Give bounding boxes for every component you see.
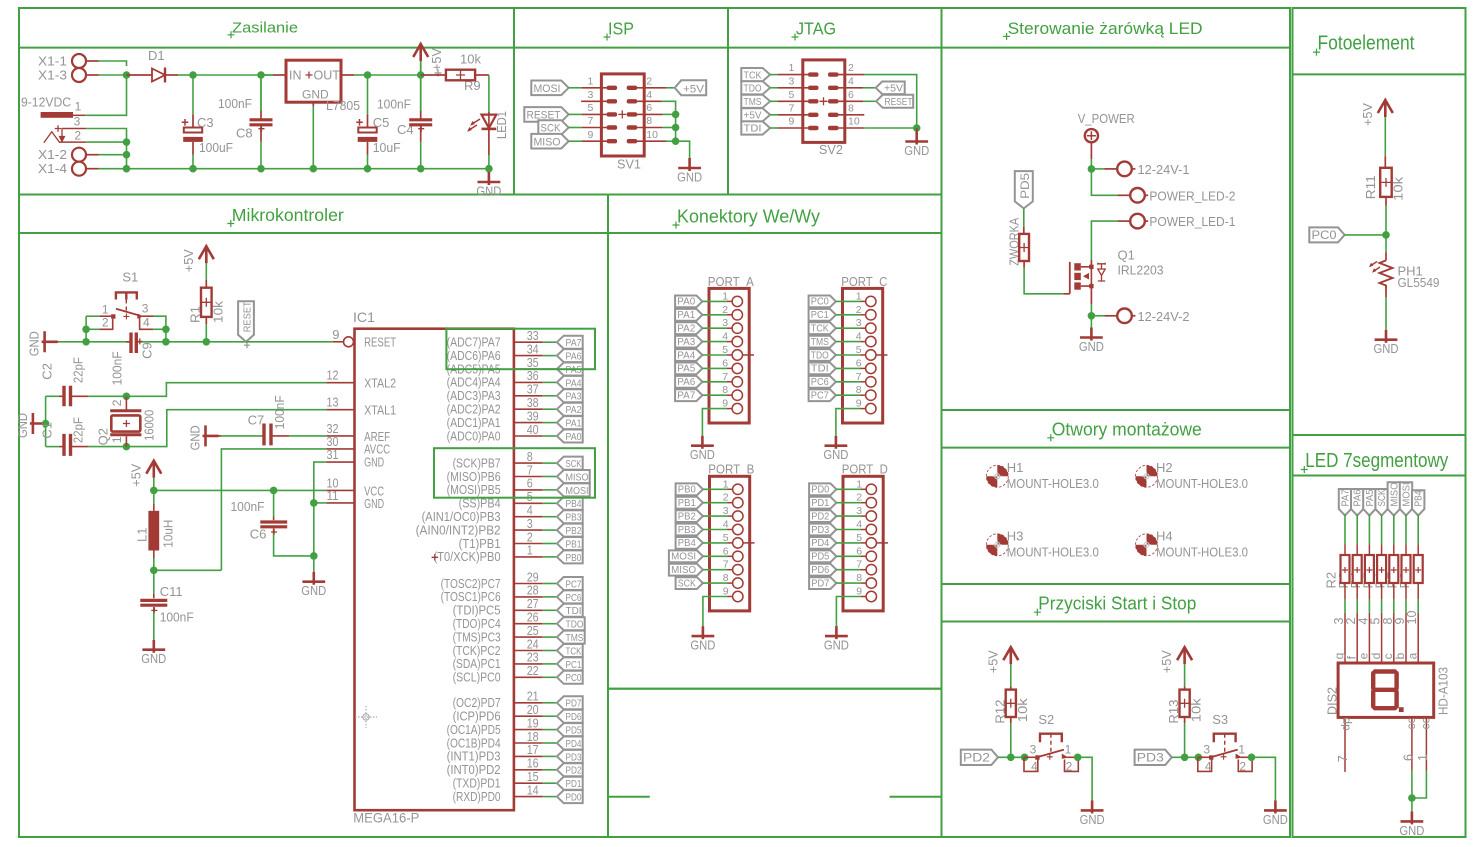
junction switch S3 left — [1195, 754, 1203, 762]
svg-text:TMS: TMS — [566, 632, 584, 644]
svg-text:12-24V-2: 12-24V-2 — [1138, 309, 1190, 324]
svg-text:TMS: TMS — [744, 97, 762, 108]
wire PA7 to PORT_A — [702, 394, 727, 396]
net flag PD4 mcu — [557, 737, 583, 750]
pad POWER_LED-1 — [1130, 214, 1145, 229]
wire PA3 to PORT_A — [702, 341, 727, 343]
ground GND PORT_D — [825, 626, 848, 639]
net flag PC1 mcu — [557, 657, 583, 670]
wire TDO to PORT_C — [836, 354, 861, 356]
wire PA2 to PORT_A — [702, 327, 727, 329]
svg-text:PA7: PA7 — [677, 390, 695, 402]
svg-text:5: 5 — [588, 102, 594, 114]
mounting hole H1 — [986, 465, 1008, 487]
svg-text:6: 6 — [646, 102, 652, 114]
wire PD3 to PORT_D — [836, 529, 861, 531]
section frame: LED 7segmentowy — [1293, 435, 1466, 837]
PORT_D pin9 wire to GND — [861, 596, 866, 598]
net flag SCK — [538, 120, 568, 135]
resistor R13 10k — [1184, 686, 1186, 689]
junction jack pin2 — [123, 138, 131, 146]
wire PA5 to PORT_A — [702, 367, 727, 369]
svg-text:9-12VDC: 9-12VDC — [21, 95, 71, 110]
resistor R11 10k — [1384, 156, 1386, 168]
PORT_A pin 6 pad — [732, 363, 742, 373]
svg-text:PA0: PA0 — [566, 431, 582, 443]
svg-text:PD2: PD2 — [566, 765, 582, 777]
wire X1-1 to corner — [99, 61, 127, 66]
svg-text:PD3: PD3 — [1137, 751, 1164, 765]
wire PD5 to ZWORKA — [1023, 208, 1025, 227]
PORT_B origin line pin5 — [743, 542, 755, 544]
green selection rect PA7-PA5 — [446, 329, 595, 370]
IC1 pin 13 stub — [326, 409, 354, 411]
svg-text:9: 9 — [588, 129, 594, 141]
jack pin2 wire — [60, 141, 87, 143]
SV2 pin contacts — [808, 99, 819, 103]
svg-text:PD7: PD7 — [566, 698, 582, 710]
junction switch S3 right — [1248, 754, 1256, 762]
svg-text:S1: S1 — [122, 270, 138, 285]
PORT_C pin 1 pad — [866, 296, 876, 306]
svg-text:PA7: PA7 — [566, 337, 582, 349]
svg-text:Przyciski Start i Stop: Przyciski Start i Stop — [1038, 594, 1196, 614]
svg-text:dp: dp — [1339, 717, 1353, 731]
PORT_B pin 6 pad — [733, 551, 743, 561]
wire PB3 to PORT_B — [703, 529, 728, 531]
svg-text:RESET: RESET — [364, 334, 396, 349]
svg-text:PD5: PD5 — [566, 725, 582, 737]
wire GND to C7 — [221, 435, 262, 437]
svg-text:C7: C7 — [248, 413, 265, 428]
svg-text:GND: GND — [824, 638, 849, 653]
svg-text:+5V: +5V — [128, 463, 143, 486]
junction C8 bottom — [257, 165, 265, 173]
svg-text:13: 13 — [327, 395, 339, 410]
top bus wire — [193, 74, 273, 76]
PORT_C origin line pin5 — [876, 354, 888, 356]
net flag TCK JTAG — [741, 68, 770, 81]
ground GND S3 — [1264, 800, 1287, 813]
svg-text:1: 1 — [789, 62, 795, 74]
S1 pin3 wire — [142, 315, 153, 317]
resistor R4 — [1368, 515, 1370, 545]
node junction X1 input — [123, 71, 131, 79]
svg-text:PA7: PA7 — [1341, 489, 1352, 506]
IC1 pin 31 stub GND — [326, 461, 354, 463]
wire PD1 to PORT_D — [836, 502, 861, 504]
svg-text:PA3: PA3 — [677, 336, 695, 348]
junction cc node — [1408, 794, 1416, 802]
svg-text:SCK: SCK — [1377, 489, 1388, 506]
ground GND ISP — [678, 158, 701, 171]
junction C4 bottom — [417, 165, 425, 173]
SV1 pin 4 wire — [637, 100, 662, 102]
svg-text:PA5: PA5 — [677, 363, 695, 375]
svg-text:Konektory We/Wy: Konektory We/Wy — [677, 206, 821, 227]
svg-text:S2: S2 — [1038, 712, 1054, 727]
ground GND Fotoelement — [1375, 330, 1398, 343]
svg-text:X1-3: X1-3 — [38, 68, 67, 83]
svg-text:PA1: PA1 — [677, 309, 695, 321]
svg-text:7: 7 — [1336, 755, 1350, 762]
junction crystal bottom — [123, 443, 131, 451]
wire MISO to PORT_B — [703, 569, 728, 571]
net flag MISO 7seg — [1388, 482, 1400, 515]
svg-text:D1: D1 — [148, 48, 165, 63]
SV1 pin 1 line — [582, 87, 608, 89]
net flag PD5 mcu — [557, 723, 583, 736]
svg-text:C8: C8 — [236, 126, 253, 141]
svg-text:11: 11 — [327, 488, 339, 503]
digit 8 segments — [1373, 672, 1396, 709]
svg-text:PA6: PA6 — [1353, 489, 1364, 506]
svg-text:PD5: PD5 — [1018, 173, 1032, 199]
svg-text:C2: C2 — [40, 363, 55, 380]
net flag PD7 mcu — [557, 696, 583, 709]
svg-text:TDO: TDO — [744, 84, 762, 95]
net flag PB4 PORT_B — [676, 537, 703, 549]
net flag RESET JTAG — [876, 95, 913, 108]
svg-text:PB0: PB0 — [566, 552, 582, 564]
svg-text:PC1: PC1 — [566, 659, 582, 671]
net flag +5V ISP — [675, 80, 707, 95]
svg-text:TCK: TCK — [811, 323, 829, 335]
SV1 pin 3 line unconnected — [581, 100, 607, 102]
resistor R7 — [1405, 515, 1407, 545]
svg-text:PB1: PB1 — [678, 497, 696, 509]
DIS2 cc pin 1 — [1425, 717, 1427, 770]
IC1 pin 32 stub AREF — [326, 435, 354, 437]
svg-text:PC6: PC6 — [566, 592, 582, 604]
svg-text:+5V: +5V — [1360, 103, 1375, 126]
svg-text:100nF: 100nF — [377, 97, 411, 112]
tick line left — [608, 796, 650, 798]
junction S1 left — [82, 338, 90, 346]
svg-text:TDI: TDI — [744, 124, 762, 135]
resistor R12 10k — [1010, 686, 1012, 689]
svg-text:PD6: PD6 — [566, 711, 582, 723]
svg-text:L7805: L7805 — [326, 98, 360, 113]
net flag PA5 PORT_A — [675, 363, 702, 375]
wire PD3 to switch — [1172, 756, 1199, 758]
wire down to GND C6 — [313, 503, 315, 572]
svg-text:PA5: PA5 — [1365, 489, 1376, 506]
svg-text:GND: GND — [1080, 812, 1105, 827]
svg-text:+5V: +5V — [1159, 650, 1174, 673]
PORT_A pin 5 pad — [732, 350, 742, 360]
svg-text:GND: GND — [1399, 823, 1424, 838]
svg-text:10: 10 — [1405, 611, 1419, 625]
svg-text:(SCL)PC0: (SCL)PC0 — [453, 670, 501, 685]
net flag PC0 — [1309, 227, 1344, 242]
decimal point — [1399, 707, 1404, 712]
svg-text:1: 1 — [527, 543, 533, 558]
PORT_C pin 5 pad — [866, 350, 876, 360]
svg-text:22pF: 22pF — [71, 357, 86, 383]
wire PA6 to PORT_A — [702, 381, 727, 383]
net flag RESET vertical — [238, 301, 254, 342]
ZWORKA wire to Q1 gate — [1023, 261, 1025, 268]
section frame: Przyciski Start i Stop — [942, 584, 1291, 837]
net flag PD5 — [1015, 171, 1033, 208]
DIS2 pin 9 stub — [1405, 613, 1407, 663]
net flag PC7 mcu — [557, 577, 583, 590]
pin stub X1-4 — [86, 168, 99, 170]
net flag PA1 mcu — [557, 416, 583, 429]
svg-text:2: 2 — [110, 399, 124, 406]
SV2 pin line +5V — [778, 114, 809, 116]
PORT_D origin line pin5 — [877, 542, 889, 544]
junction switch S2 left — [1021, 754, 1029, 762]
svg-text:XTAL1: XTAL1 — [364, 403, 396, 418]
tick line right — [890, 796, 942, 798]
svg-text:3: 3 — [789, 75, 795, 87]
svg-text:9: 9 — [789, 116, 795, 128]
net flag PA3 mcu — [557, 389, 583, 402]
capacitor C3 100uF — [192, 75, 194, 114]
net flag TDI mcu — [557, 604, 583, 617]
junction C8 top — [257, 71, 265, 79]
svg-text:1: 1 — [1065, 742, 1072, 756]
C2 wires — [46, 395, 59, 397]
svg-text:100nF: 100nF — [272, 395, 287, 429]
ground GND C7 — [203, 425, 219, 446]
PORT_D pin 3 pad — [866, 511, 876, 521]
ground GND C11 — [142, 640, 165, 653]
SV2 pin line TDI — [778, 127, 809, 129]
net flag MISO PORT_B — [669, 564, 703, 576]
svg-text:Otwory montażowe: Otwory montażowe — [1052, 419, 1202, 439]
svg-text:100nF: 100nF — [160, 609, 194, 624]
SV2 pin line TCK — [778, 74, 809, 76]
svg-text:DIS2: DIS2 — [1324, 687, 1339, 715]
junction GND caps — [42, 420, 50, 428]
net flag RESET — [524, 107, 568, 122]
svg-text:PA1: PA1 — [566, 418, 582, 430]
junction C6 bottom — [310, 552, 318, 560]
svg-text:MOUNT-HOLE3.0: MOUNT-HOLE3.0 — [1007, 544, 1099, 559]
svg-text:2: 2 — [646, 75, 652, 87]
wire pin11 GND — [314, 502, 326, 504]
net flag PD3 mcu — [557, 750, 583, 763]
svg-text:PD3: PD3 — [566, 751, 582, 763]
svg-text:PA6: PA6 — [677, 376, 695, 388]
svg-text:Q1: Q1 — [1118, 247, 1135, 262]
svg-text:PA3: PA3 — [566, 391, 582, 403]
svg-text:JTAG: JTAG — [796, 19, 836, 39]
svg-text:TDI: TDI — [566, 605, 582, 617]
wire to POWER_LED-2 — [1091, 169, 1117, 195]
net flag +5V JTAG — [741, 108, 770, 121]
svg-text:R11: R11 — [1363, 175, 1378, 199]
svg-text:GND: GND — [823, 447, 848, 462]
net flag PA2 PORT_A — [675, 322, 702, 334]
ground GND PORT_C — [825, 436, 848, 449]
svg-text:MOUNT-HOLE3.0: MOUNT-HOLE3.0 — [1007, 476, 1099, 491]
net flag TCK mcu — [557, 644, 583, 657]
net flag MISO mcu — [557, 470, 590, 483]
VCC net wire — [154, 489, 326, 491]
net flag PD1 PORT_D — [809, 497, 836, 509]
svg-text:PD1: PD1 — [566, 778, 582, 790]
wire X1-2 to junction — [99, 154, 127, 156]
net flag PD3 — [1135, 750, 1172, 765]
wire R9 to LED1 — [488, 75, 490, 112]
svg-text:PORT_B: PORT_B — [708, 462, 754, 477]
svg-text:X1-1: X1-1 — [38, 54, 67, 69]
svg-text:1: 1 — [1416, 754, 1430, 761]
svg-text:PB4: PB4 — [566, 498, 582, 510]
junction C6 top — [270, 487, 278, 495]
SV2 pin 10 wire — [838, 127, 865, 129]
svg-text:6: 6 — [848, 89, 854, 101]
wire PD4 to PORT_D — [836, 542, 861, 544]
pin header SV2 — [803, 60, 845, 142]
wire PD2 to PORT_D — [836, 515, 861, 517]
svg-text:PA4: PA4 — [566, 377, 582, 389]
svg-text:+5V: +5V — [985, 650, 1000, 673]
empty frame below Konektory — [608, 689, 942, 837]
net flag PB4 7seg — [1412, 490, 1424, 515]
svg-text:8: 8 — [848, 102, 854, 114]
DIS2 pin 10 stub — [1417, 613, 1419, 663]
wire PA0 to PORT_A — [702, 300, 727, 302]
junction JTAG gnd node — [913, 124, 921, 132]
junction C5 bottom — [364, 165, 372, 173]
svg-text:PD2: PD2 — [963, 751, 990, 765]
svg-text:100nF: 100nF — [218, 96, 252, 111]
jack spring contact — [44, 132, 60, 143]
svg-text:(RXD)PD0: (RXD)PD0 — [453, 789, 501, 804]
wire PC1 to PORT_C — [836, 314, 861, 316]
svg-text:PB3: PB3 — [678, 524, 696, 536]
DIS2 cc pin 6 — [1411, 717, 1413, 770]
svg-text:Zasilanie: Zasilanie — [232, 19, 298, 36]
svg-text:H2: H2 — [1156, 460, 1173, 475]
svg-text:9: 9 — [332, 327, 339, 342]
SV1 pin 5 line — [582, 113, 608, 115]
PORT_C pin 7 pad — [866, 377, 876, 387]
svg-text:PB0: PB0 — [678, 484, 696, 496]
svg-text:PB4: PB4 — [678, 537, 696, 549]
net flag PD0 PORT_D — [809, 483, 836, 495]
L7805 GND pin stub — [312, 102, 314, 106]
net flag TDI PORT_C — [809, 363, 836, 375]
ground GND reset net left — [42, 331, 58, 352]
ground GND PORT_A — [691, 436, 714, 449]
svg-text:GND: GND — [1263, 812, 1288, 827]
wire C9 to R1 node — [142, 341, 246, 343]
svg-text:PD3: PD3 — [811, 524, 829, 536]
svg-text:MOUNT-HOLE3.0: MOUNT-HOLE3.0 — [1156, 476, 1248, 491]
junction crystal top — [123, 393, 131, 401]
PORT_D pin 8 pad — [866, 578, 876, 588]
net flag PD2 mcu — [557, 763, 583, 776]
net flag PA1 PORT_A — [675, 309, 702, 321]
junction X1-2 — [123, 151, 131, 159]
IC1 pin 10 stub VCC — [326, 489, 354, 491]
net flag TMS PORT_C — [809, 336, 836, 348]
C1 wires — [46, 446, 59, 448]
junction ISP pin6 — [672, 111, 680, 119]
PORT_B pin 5 pad — [733, 538, 743, 548]
bottom GND bus wire — [99, 168, 489, 170]
svg-text:PA2: PA2 — [677, 323, 695, 335]
net flag PD4 PORT_D — [809, 537, 836, 549]
wire PD2 to switch — [998, 756, 1025, 758]
net flag PD5 PORT_D — [809, 550, 836, 562]
svg-text:C11: C11 — [160, 584, 183, 599]
net flag PB1 PORT_B — [676, 497, 703, 509]
PORT_B pin9 wire to GND — [728, 596, 733, 598]
S1 lever — [116, 309, 140, 316]
SV2 pin 8 line unconnected — [838, 114, 865, 116]
net flag PA0 PORT_A — [675, 296, 702, 308]
svg-text:GND: GND — [364, 454, 384, 469]
PORT_C pin 8 pad — [866, 390, 876, 400]
svg-text:PC0: PC0 — [1312, 228, 1337, 242]
wire PC6 to PORT_C — [836, 381, 861, 383]
svg-text:GND: GND — [141, 651, 166, 666]
pad 12-24V-1 — [1091, 168, 1104, 170]
svg-text:3: 3 — [74, 115, 81, 129]
svg-text:X1-2: X1-2 — [38, 147, 67, 162]
+5V supply Fotoelement — [1378, 100, 1393, 117]
svg-text:GL5549: GL5549 — [1398, 275, 1440, 290]
net flag PD2 PORT_D — [809, 510, 836, 522]
resistor R3 — [1356, 515, 1358, 545]
wire L7805 GND down — [312, 106, 314, 169]
DIS2 pin 4 stub — [1368, 613, 1370, 663]
svg-text:GND: GND — [904, 143, 929, 158]
svg-text:TDO: TDO — [566, 619, 584, 631]
net flag PB3 PORT_B — [676, 524, 703, 536]
svg-text:+5V: +5V — [683, 83, 705, 95]
red origin cross near PB0 — [432, 554, 438, 560]
svg-text:12-24V-1: 12-24V-1 — [1138, 162, 1190, 177]
photoresistor PH1 GL5549 — [1385, 235, 1387, 252]
svg-text:100nF: 100nF — [231, 499, 265, 514]
pin stub X1-3 — [86, 74, 99, 76]
IC1 origin crosshair — [355, 706, 377, 728]
wire GND to S1 — [47, 341, 59, 343]
+5V supply R1 — [199, 246, 214, 263]
svg-text:PD7: PD7 — [811, 577, 829, 589]
PORT_D pin 6 pad — [866, 551, 876, 561]
jack pin1 wire — [73, 114, 85, 116]
svg-text:cc: cc — [1418, 718, 1432, 730]
SV2 pin line TDO — [778, 87, 809, 89]
mounting hole H3 — [986, 534, 1008, 556]
svg-text:3: 3 — [1203, 742, 1210, 756]
net flag PA6 mcu — [557, 349, 583, 362]
svg-text:PC7: PC7 — [811, 390, 829, 402]
svg-text:SV2: SV2 — [819, 142, 843, 157]
svg-text:MOSI: MOSI — [671, 551, 696, 563]
svg-text:3: 3 — [142, 301, 149, 315]
svg-text:2: 2 — [848, 62, 854, 74]
wire PA1 to PORT_A — [702, 314, 727, 316]
section frame: ISP — [514, 8, 728, 195]
net flag PB3 mcu — [557, 510, 583, 523]
net flag PB4 mcu — [557, 497, 583, 510]
svg-text:4: 4 — [848, 75, 854, 87]
svg-text:PC0: PC0 — [566, 672, 582, 684]
svg-text:SV1: SV1 — [617, 157, 641, 172]
svg-text:6: 6 — [1402, 754, 1416, 761]
svg-text:C6: C6 — [250, 527, 267, 542]
